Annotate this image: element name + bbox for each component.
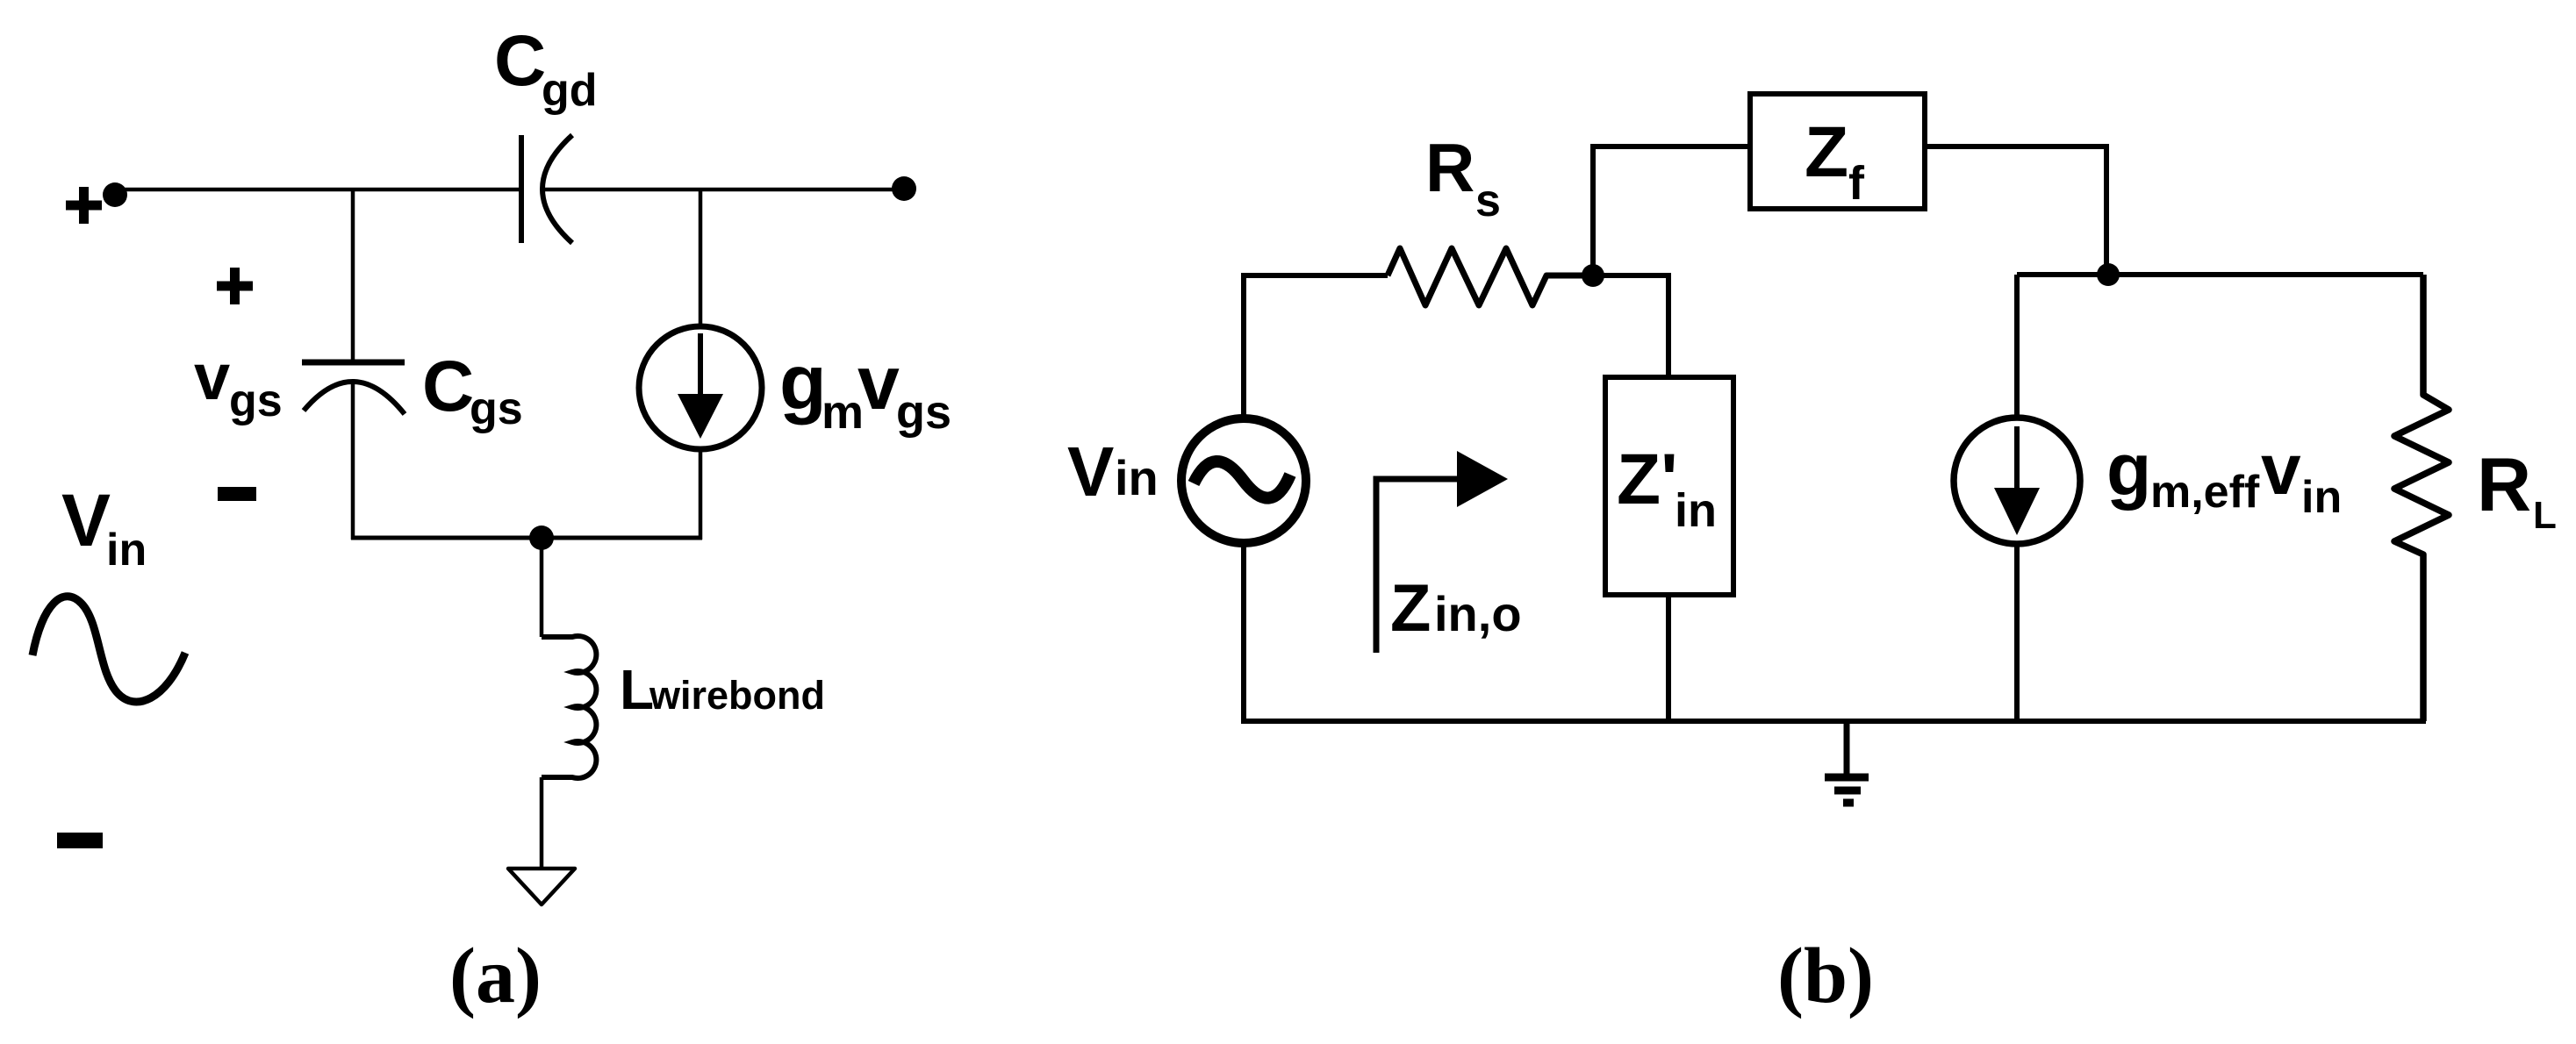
voltage source Vin (b) circle [1181,418,1306,543]
svg-text:in,o: in,o [1434,586,1522,641]
wire: inductor bottom lead [540,777,544,869]
node: output terminal dot [892,176,916,201]
wire: node up and right to Zf [1593,147,1747,275]
capacitor Cgd curved plate [542,135,572,243]
capacitor Cgd left plate [519,135,524,243]
label Vin minus [57,833,103,848]
svg-text:wirebond: wirebond [649,673,825,718]
wire: Z'in bottom lead [1666,595,1671,721]
wire: node1 to Z'in box [1593,275,1668,377]
svg-text:in: in [1675,484,1717,537]
svg-text:Z': Z' [1617,440,1678,519]
resistor Rs [1388,248,1595,305]
wire: inductor top lead [540,538,544,637]
svg-text:in: in [106,525,147,576]
node: source junction dot [529,526,554,550]
svg-text:(a): (a) [449,933,542,1019]
wire: gm branch lower [699,448,703,540]
capacitor Cgs curved plate [304,382,405,414]
svg-text:V: V [1067,433,1114,511]
resistor RL [2394,275,2449,721]
node: Rs/Zf/Z'in junction dot [1582,264,1604,287]
svg-text:R: R [2477,443,2531,527]
wire: output node horizontal [2017,272,2423,277]
ground of (a): open triangle [508,869,575,905]
svg-text:v: v [2261,430,2301,510]
svg-text:C: C [422,347,474,426]
capacitor Cgs top plate [302,360,405,366]
svg-text:gd: gd [542,65,598,116]
current source gm,eff circle [1954,418,2080,544]
wire: Cgs branch upper [351,189,355,361]
wire: gm branch upper [699,189,703,326]
node: output node dot [2097,263,2120,286]
ground of (b) [1844,721,1850,776]
svg-text:g: g [2106,428,2151,511]
impedance box Zf [1750,94,1925,209]
wire: current source branch upper [2014,275,2020,418]
wire: current source branch lower [2014,541,2020,724]
wire: bottom wire of (b) [1241,719,2426,724]
current source gm circle [639,326,762,449]
svg-text:Z: Z [1805,112,1848,192]
svg-text:in: in [2301,472,2342,523]
svg-text:Z: Z [1390,571,1431,646]
sine symbol of Vin (a) [32,597,185,702]
svg-text:in: in [1115,450,1159,505]
svg-text:gs: gs [229,375,283,426]
wire: Zf right to output node [1927,147,2106,275]
inductor Lwirebond [542,636,596,778]
svg-text:(b): (b) [1777,933,1874,1019]
svg-text:gs: gs [896,386,951,439]
svg-text:s: s [1475,175,1501,226]
wire: Vin bottom lead [1241,544,1246,724]
svg-text:m,eff: m,eff [2150,467,2260,518]
label vgs minus [218,487,256,501]
wire: bottom wire of (a) [351,536,702,540]
wire: Cgs branch lower [351,383,355,540]
wire: top wire right of Cgd [544,188,904,192]
svg-text:V: V [61,479,111,561]
svg-text:L: L [2533,494,2557,537]
svg-text:gs: gs [470,383,523,434]
svg-text:R: R [1425,129,1475,206]
voltage source Vin (b) sine [1194,461,1290,498]
svg-text:v: v [857,341,900,425]
node: input terminal dot [103,182,127,207]
svg-text:C: C [494,21,546,101]
current source gm arrow [698,333,703,397]
arrow Zin,o [1376,479,1461,653]
svg-text:f: f [1848,157,1865,210]
wire: from Vin top corner to Rs [1244,275,1388,415]
impedance box Z'in [1605,377,1733,595]
svg-text:v: v [194,340,230,413]
plus sign at input terminal [66,187,102,224]
current source gm,eff arrow [2014,426,2020,490]
label vgs plus [217,268,253,304]
wire: top wire left of Cgd [115,188,519,192]
svg-text:g: g [779,339,827,425]
